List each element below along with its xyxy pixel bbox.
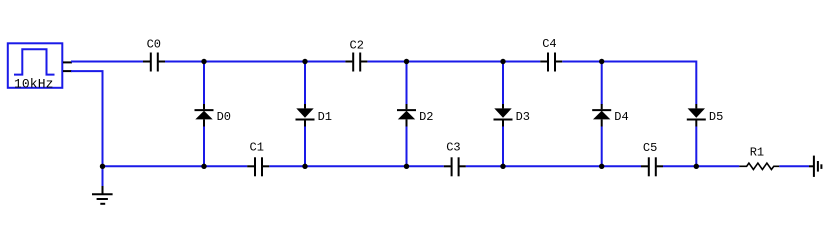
capacitor C1 label — [250, 140, 264, 154]
junction dot top rail node 1 — [201, 59, 206, 64]
svg-text:C4: C4 — [542, 37, 556, 51]
wire bottom rail C5 to R1 — [663, 165, 739, 167]
svg-text:10kHz: 10kHz — [14, 76, 54, 91]
wire top rail C4 to corner — [562, 62, 696, 105]
svg-text:D5: D5 — [709, 110, 723, 124]
capacitor C3 label — [446, 141, 460, 155]
capacitor C5 label — [643, 141, 657, 155]
svg-text:C5: C5 — [643, 141, 657, 155]
wire column 4 lower — [502, 127, 504, 167]
junction dot top rail node 3 — [404, 59, 409, 64]
junction dot bottom rail node 1 — [201, 164, 206, 169]
ground symbol left — [92, 186, 113, 204]
svg-text:D0: D0 — [217, 110, 231, 124]
junction dot bottom rail node 3 — [404, 164, 409, 169]
svg-text:R1: R1 — [750, 146, 764, 160]
ground symbol right output — [809, 156, 821, 177]
diode D1 label — [318, 110, 332, 124]
diode D4 — [592, 104, 611, 127]
diode D0 — [195, 104, 214, 127]
wire bottom rail C1 to C3 — [269, 165, 444, 167]
resistor R1 — [739, 163, 779, 169]
capacitor C2 — [345, 53, 367, 72]
wire source bottom to ground corner — [71, 71, 103, 166]
pulse source V1 waveform — [14, 49, 55, 74]
junction dot bottom rail node 5 — [599, 164, 604, 169]
wire column 5 lower — [601, 127, 603, 167]
svg-text:D2: D2 — [419, 110, 433, 124]
wire column 3 upper — [406, 62, 408, 105]
pulse source V1 terminal pin bottom — [63, 70, 72, 72]
wire ground stem — [102, 166, 104, 186]
capacitor C2 label — [350, 38, 364, 52]
svg-text:D3: D3 — [516, 110, 530, 124]
wire column 1 upper — [203, 62, 205, 105]
pulse source V1 box — [8, 43, 63, 88]
junction dot top rail node 4 — [500, 59, 505, 64]
capacitor C1 — [247, 157, 269, 176]
capacitor C0 label — [147, 38, 161, 52]
wire top rail source to C0 — [71, 61, 143, 63]
capacitor C5 — [641, 157, 663, 176]
pulse source V1 terminal pin top — [63, 61, 72, 63]
wire column 4 upper — [502, 62, 504, 105]
svg-text:C2: C2 — [350, 38, 364, 52]
svg-text:C0: C0 — [147, 38, 161, 52]
diode D5 — [687, 104, 706, 127]
diode D2 — [397, 104, 416, 127]
junction dot bottom rail node 4 — [500, 164, 505, 169]
wire column 3 lower — [406, 127, 408, 167]
svg-text:D1: D1 — [318, 110, 332, 124]
diode D3 label — [516, 110, 530, 124]
diode D2 label — [419, 110, 433, 124]
diode D3 — [494, 104, 513, 127]
wire bottom rail C3 to C5 — [466, 165, 641, 167]
wire column 1 lower — [203, 127, 205, 167]
diode D1 — [296, 104, 315, 127]
diode D0 label — [217, 110, 231, 124]
junction dot top rail node 2 — [302, 59, 307, 64]
diode D4 label — [614, 110, 628, 124]
junction dot bottom rail node 6 — [694, 164, 699, 169]
wire top rail C0 to C2 — [165, 61, 345, 63]
capacitor C4 — [540, 53, 562, 72]
resistor R1 label — [750, 146, 764, 160]
pulse source V1 label 10kHz — [14, 76, 54, 91]
wire top rail C2 to C4 — [367, 61, 540, 63]
wire column 2 upper — [304, 62, 306, 105]
svg-text:C3: C3 — [446, 141, 460, 155]
svg-text:C1: C1 — [250, 140, 264, 154]
junction dot top rail node 5 — [599, 59, 604, 64]
junction dot bottom rail node 2 — [302, 164, 307, 169]
capacitor C3 — [444, 157, 466, 176]
junction dot bottom rail ground node — [100, 164, 105, 169]
capacitor C4 label — [542, 37, 556, 51]
wire R1 to output ground — [779, 165, 809, 167]
diode D5 label — [709, 110, 723, 124]
wire bottom rail ground to C1 — [103, 165, 248, 167]
wire column 6 lower — [695, 127, 697, 167]
svg-text:D4: D4 — [614, 110, 628, 124]
wire column 2 lower — [304, 127, 306, 167]
wire column 5 upper — [601, 62, 603, 105]
capacitor C0 — [143, 53, 165, 72]
